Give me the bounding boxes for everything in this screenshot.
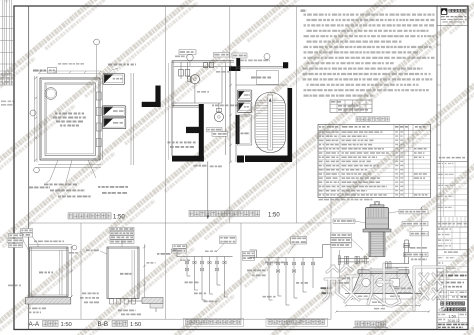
axis bubble left bbox=[30, 110, 36, 116]
section A-A bbox=[21, 229, 33, 233]
roof pump room plan bbox=[179, 50, 196, 55]
narrow col ticks bbox=[437, 44, 441, 46]
thick black L wall bbox=[155, 86, 160, 108]
caption strip line y319 bbox=[29, 318, 331, 320]
material table caption bbox=[356, 117, 360, 122]
pump detail labels right bbox=[399, 210, 428, 214]
ladder rungs bbox=[96, 92, 101, 100]
big outline watermark zhulong bbox=[324, 264, 445, 310]
svg-text:2016.12: 2016.12 bbox=[448, 319, 460, 323]
black wall step top right bbox=[236, 58, 240, 71]
main material table bbox=[318, 125, 431, 198]
vertical dim left bbox=[339, 250, 341, 294]
drain pipe down bbox=[207, 162, 209, 220]
tank room walls bbox=[40, 78, 100, 160]
title: pump room caption bbox=[189, 210, 194, 216]
panel divider top x165 bbox=[165, 6, 167, 223]
pump P1 bbox=[190, 75, 199, 84]
tank room label box bbox=[257, 71, 279, 85]
pump P2 bbox=[214, 112, 223, 121]
axis bubble stair plan bbox=[264, 54, 270, 60]
stair central shaft bbox=[268, 95, 273, 150]
louver shaft box bbox=[237, 102, 252, 113]
tank room top wall bbox=[236, 66, 288, 68]
suction pipe left bbox=[339, 257, 370, 259]
sys2 drop 5 bbox=[302, 258, 304, 293]
revision strip bbox=[440, 217, 442, 222]
sys1 drop 1 bbox=[186, 257, 188, 277]
louver shaft box bbox=[103, 73, 125, 84]
sys2 drop 1 bbox=[268, 258, 270, 301]
sys1 drop 3 bbox=[201, 257, 203, 301]
left lower labels bbox=[337, 277, 350, 279]
water tank outline bbox=[45, 83, 96, 156]
tank A-A body bbox=[30, 247, 68, 297]
drawing title cell bbox=[441, 302, 444, 305]
scale row bbox=[438, 314, 445, 316]
company name row bbox=[439, 275, 467, 277]
pump room black walls bbox=[199, 104, 204, 162]
roof test drain system diagram 2 bbox=[291, 237, 307, 245]
inner frame binding line bbox=[28, 6, 30, 330]
wall under tank room bbox=[236, 84, 288, 86]
stair left wall bbox=[235, 67, 237, 162]
A-A left margin leaders bbox=[9, 234, 23, 238]
louver shaft box bbox=[103, 117, 126, 129]
stair treads bbox=[256, 99, 285, 101]
sys1 drop 2 bbox=[194, 257, 196, 291]
panel divider bottom x241 bbox=[240, 223, 242, 319]
elevator cell bbox=[237, 115, 252, 145]
panel divider bottom x165 bbox=[165, 223, 167, 319]
black column top right bbox=[283, 62, 288, 68]
B-B left labels bbox=[82, 292, 99, 294]
sys2 drop 4 bbox=[293, 258, 295, 299]
sys2 drop 2 bbox=[277, 258, 279, 297]
panel divider bottom x331 bbox=[330, 198, 332, 319]
bottom note row bbox=[438, 323, 468, 325]
main pipe sys2 bbox=[250, 257, 323, 259]
mid table bbox=[437, 161, 468, 163]
pump stack bbox=[369, 232, 385, 257]
staircase capsule bbox=[255, 93, 286, 153]
left adjacent sheet signature table bbox=[2, 0, 4, 85]
motor bbox=[370, 205, 384, 208]
sys2 drop 3 bbox=[285, 258, 287, 306]
title block column bbox=[436, 6, 438, 330]
svg-text:B-B: B-B bbox=[98, 321, 109, 328]
B-B supports bbox=[110, 299, 114, 305]
signature block bbox=[437, 232, 468, 234]
small legend table bbox=[330, 100, 372, 113]
pump detail labels left bbox=[331, 233, 352, 237]
axis bubble A1 bbox=[94, 39, 100, 45]
tank B-B body bbox=[107, 247, 139, 299]
caption pump detail bbox=[355, 321, 359, 327]
equipment pad bbox=[186, 127, 199, 133]
pump room top wall bbox=[172, 60, 234, 62]
panel divider top x229 bbox=[229, 6, 231, 223]
B-B drain pipe bbox=[128, 300, 157, 302]
discharge pipe right bbox=[404, 240, 406, 264]
inertia base bbox=[358, 270, 409, 274]
axis bubble bottom bbox=[34, 167, 40, 173]
design no rows bbox=[438, 291, 447, 293]
hydrant test drain system diagram 1 bbox=[220, 236, 237, 244]
caption sys2 bbox=[266, 318, 328, 326]
sys1 drop 6 bbox=[224, 257, 226, 298]
vertical dim right bbox=[421, 207, 423, 294]
stair and tank room plan bbox=[232, 53, 247, 58]
svg-text:1:50: 1:50 bbox=[61, 322, 72, 328]
upper small rows bbox=[444, 251, 458, 253]
svg-text:1:50: 1:50 bbox=[268, 212, 280, 218]
svg-text:A-A: A-A bbox=[29, 321, 40, 328]
B-B floor hatch bbox=[142, 298, 163, 304]
lifting lug bbox=[375, 202, 380, 206]
dim lines below foundation bbox=[352, 298, 415, 300]
sys1 drop 4 bbox=[209, 257, 211, 295]
panel divider top x296 bbox=[296, 6, 298, 223]
svg-text:1:50: 1:50 bbox=[113, 215, 125, 221]
axis bubble pump plan bbox=[187, 54, 193, 60]
right side labels lower bbox=[411, 258, 427, 260]
panel divider bottom x81 bbox=[80, 223, 82, 319]
project name cell bbox=[441, 282, 464, 284]
suction header pipe bbox=[174, 66, 230, 68]
section B-B bbox=[110, 227, 134, 231]
leader labels below tank plan bbox=[46, 160, 58, 183]
general notes text block bbox=[301, 10, 307, 12]
A-A right dim bbox=[71, 246, 73, 297]
pump room left wall bbox=[171, 61, 173, 156]
tank manhole bbox=[45, 88, 57, 100]
caption sys1 bbox=[184, 318, 244, 326]
foundation bbox=[352, 274, 415, 294]
main pipe bbox=[177, 256, 233, 258]
sys1 drop 5 bbox=[216, 257, 218, 286]
cert row bbox=[439, 157, 465, 159]
pump room mid wall bbox=[172, 105, 199, 107]
pump room piping bbox=[194, 84, 196, 103]
logo cell bbox=[437, 25, 468, 27]
louver shaft box bbox=[237, 90, 252, 101]
stair bottom black band bbox=[245, 156, 292, 163]
horizontal band line y223 bbox=[29, 222, 331, 224]
stair right black wall bbox=[288, 88, 293, 162]
louver shaft box bbox=[103, 106, 126, 117]
B-B right dim bbox=[144, 244, 146, 300]
title: tank plan caption bbox=[68, 213, 73, 219]
stair left dim bbox=[230, 60, 232, 162]
svg-text:1:50: 1:50 bbox=[130, 322, 141, 328]
